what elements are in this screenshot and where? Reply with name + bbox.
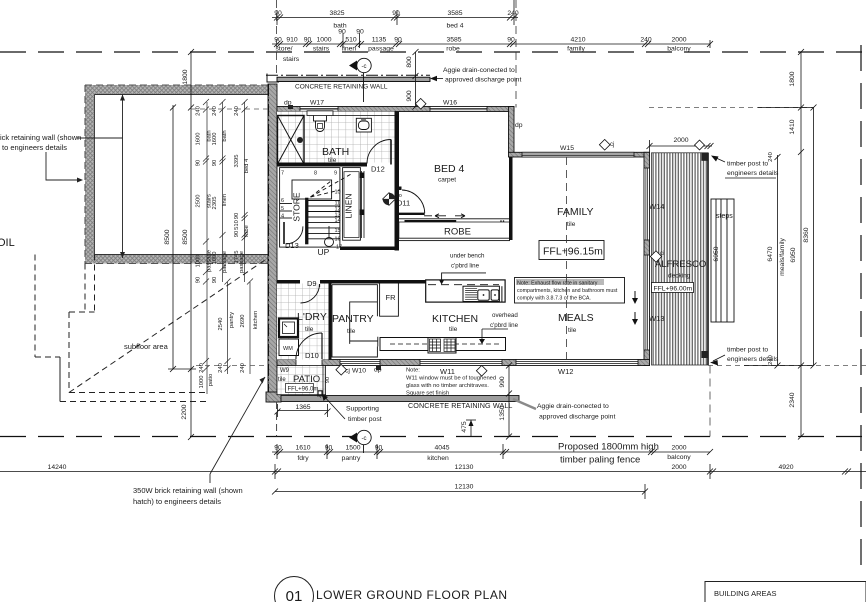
- alfresco labels: [650, 251, 706, 293]
- svg-text:KITCHEN: KITCHEN: [432, 313, 478, 325]
- svg-text:1000: 1000: [199, 376, 205, 389]
- svg-text:FR: FR: [386, 293, 397, 302]
- passage north wall (below linen/stairs): [340, 247, 399, 251]
- svg-text:PANTRY: PANTRY: [332, 313, 374, 325]
- boundary dashed line top: [0, 51, 866, 53]
- svg-text:1600: 1600: [196, 133, 202, 146]
- pantry bench: [332, 285, 378, 357]
- svg-text:W14: W14: [649, 202, 664, 211]
- svg-text:ROBE: ROBE: [444, 227, 471, 238]
- svg-text:90: 90: [325, 377, 331, 383]
- timber post note bottom right: [710, 347, 779, 366]
- svg-text:1610: 1610: [295, 445, 310, 452]
- svg-text:4045: 4045: [434, 445, 449, 452]
- bath/bed4 wall: [395, 112, 400, 251]
- svg-text:7: 7: [281, 171, 284, 177]
- smoke detector symbol: [383, 193, 402, 206]
- svg-text:240: 240: [196, 106, 202, 116]
- W11 note text: [406, 368, 496, 397]
- svg-text:W13: W13: [649, 314, 664, 323]
- svg-text:1410: 1410: [789, 119, 796, 134]
- svg-text:1800: 1800: [182, 69, 189, 84]
- svg-text:FFL+96.00m: FFL+96.00m: [654, 286, 693, 293]
- svg-text:475: 475: [461, 421, 468, 433]
- laundry tub: [279, 319, 298, 338]
- svg-text:overhead: overhead: [492, 312, 518, 319]
- svg-text:90: 90: [338, 29, 346, 36]
- svg-text:compartments, kitchen and bath: compartments, kitchen and bathroom must: [517, 288, 618, 294]
- svg-text:2540: 2540: [218, 318, 224, 331]
- kitchen south bench: [380, 338, 506, 354]
- window W16: [430, 107, 487, 112]
- svg-text:6950: 6950: [790, 247, 797, 262]
- svg-text:store/: store/: [276, 46, 293, 53]
- svg-text:timber post to: timber post to: [727, 347, 768, 354]
- svg-text:1000: 1000: [196, 255, 202, 268]
- svg-text:UP: UP: [318, 247, 330, 257]
- shower: [278, 116, 305, 165]
- svg-text:8500: 8500: [182, 229, 189, 244]
- post bottom: [702, 351, 709, 358]
- svg-text:3585: 3585: [446, 37, 461, 44]
- 800/900 dim: [413, 49, 419, 110]
- svg-text:balcony: balcony: [667, 46, 691, 53]
- right dim lines: [649, 49, 866, 440]
- svg-text:bath: bath: [222, 130, 228, 141]
- svg-text:90: 90: [394, 37, 402, 44]
- svg-text:robe: robe: [244, 225, 250, 237]
- svg-text:engineers details: engineers details: [727, 170, 779, 177]
- svg-text:6950: 6950: [713, 246, 720, 261]
- svg-text:Note: Exhaust flow rate in san: Note: Exhaust flow rate in sanitary: [517, 281, 598, 287]
- timber post note top right: [711, 156, 779, 179]
- svg-text:D10: D10: [305, 351, 319, 360]
- washing machine: [279, 339, 299, 356]
- svg-text:W12: W12: [558, 367, 573, 376]
- svg-text:under bench: under bench: [450, 253, 485, 260]
- svg-text:FAMILY: FAMILY: [557, 206, 594, 218]
- svg-text:family: family: [567, 46, 585, 53]
- door D12: [367, 140, 391, 165]
- svg-text:robe: robe: [446, 46, 460, 53]
- post top: [702, 153, 709, 161]
- svg-text:3585: 3585: [447, 10, 462, 17]
- svg-text:90: 90: [325, 445, 333, 452]
- svg-text:1135: 1135: [372, 37, 387, 44]
- svg-text:fdry: fdry: [297, 455, 309, 462]
- svg-text:90: 90: [507, 37, 515, 44]
- steps (right of alfresco): [711, 199, 734, 322]
- title circle 01: [275, 577, 508, 602]
- svg-text:Aggie drain-conected to: Aggie drain-conected to: [443, 67, 515, 74]
- svg-text:so: so: [396, 193, 402, 199]
- svg-text:10: 10: [335, 190, 341, 196]
- svg-text:subfloor area: subfloor area: [124, 342, 169, 351]
- door D10 opening: [296, 360, 322, 366]
- bath south wall: [277, 163, 367, 167]
- svg-text:LINEN: LINEN: [344, 193, 354, 218]
- svg-text:4920: 4920: [778, 464, 793, 471]
- svg-text:tile: tile: [278, 377, 286, 383]
- svg-text:hatch) to engineers details: hatch) to engineers details: [133, 497, 221, 506]
- leader: brick retaining wall note (left): [46, 95, 125, 259]
- svg-text:90: 90: [392, 10, 400, 17]
- svg-text:Proposed 1800mm high: Proposed 1800mm high: [558, 442, 659, 453]
- svg-text:W15: W15: [560, 145, 574, 152]
- svg-text:90: 90: [356, 29, 364, 36]
- svg-text:90: 90: [196, 160, 202, 166]
- svg-text:tile: tile: [449, 326, 458, 333]
- svg-text:D11: D11: [397, 199, 410, 208]
- door D9 arc: [301, 284, 320, 303]
- svg-text:2000: 2000: [671, 445, 686, 452]
- svg-text:240: 240: [218, 363, 224, 373]
- aggie drain note bottom: [513, 399, 615, 421]
- interior walls: [277, 112, 513, 360]
- bottom dim row A: [272, 444, 713, 459]
- stair numbers: [281, 171, 342, 251]
- window W14: [644, 168, 650, 240]
- top dim row 1: [272, 0, 518, 25]
- building top wall: [277, 107, 514, 112]
- svg-text:c'pbrd line: c'pbrd line: [451, 263, 480, 270]
- svg-text:tile: tile: [328, 157, 337, 164]
- svg-text:1365: 1365: [295, 404, 310, 411]
- svg-text:1000: 1000: [316, 37, 331, 44]
- svg-text:1000: 1000: [212, 252, 218, 265]
- svg-text:8: 8: [314, 171, 317, 177]
- svg-text:c'pbrd line: c'pbrd line: [490, 322, 519, 329]
- svg-text:tile: tile: [305, 326, 314, 333]
- svg-text:90: 90: [274, 445, 282, 452]
- svg-text:CONCRETE RETAINING WALL: CONCRETE RETAINING WALL: [295, 84, 388, 91]
- svg-text:350W brick retaining wall (sho: 350W brick retaining wall (shown: [133, 486, 243, 495]
- svg-text:steps: steps: [716, 213, 733, 220]
- svg-text:BUILDING AREAS: BUILDING AREAS: [714, 589, 777, 598]
- svg-text:comply with 3.8.7.3 of the BC: comply with 3.8.7.3 of the BCA.: [517, 296, 591, 302]
- svg-text:240: 240: [240, 363, 246, 373]
- left dim line 1800/8500/2200: [168, 49, 196, 440]
- svg-text:bed 4: bed 4: [446, 23, 463, 30]
- svg-text:12130: 12130: [455, 464, 474, 471]
- svg-text:D13: D13: [285, 241, 299, 250]
- svg-text:balcony: balcony: [667, 454, 691, 461]
- svg-text:cj: cj: [610, 142, 614, 148]
- bed4 east wall: [509, 107, 515, 153]
- svg-text:passage: passage: [368, 46, 394, 53]
- svg-text:passage: passage: [222, 251, 228, 273]
- svg-text:800: 800: [406, 56, 413, 68]
- svg-text:1500: 1500: [345, 445, 360, 452]
- drain symbol bottom: [349, 430, 371, 453]
- window tags: [284, 100, 574, 377]
- svg-text:6: 6: [281, 198, 284, 204]
- gridline dashes top: [276, 0, 278, 75]
- stairs: [280, 168, 352, 248]
- svg-text:16: 16: [335, 237, 341, 243]
- svg-text:tile: tile: [568, 327, 577, 334]
- svg-text:90: 90: [212, 160, 218, 166]
- family east wall: [644, 152, 650, 365]
- bottom dim row C: [272, 484, 648, 499]
- window W12: [516, 360, 638, 366]
- svg-text:90: 90: [274, 10, 282, 17]
- svg-text:5: 5: [281, 206, 284, 212]
- 475 dim: [466, 420, 476, 437]
- svg-text:90: 90: [234, 231, 240, 237]
- svg-text:-c: -c: [362, 64, 367, 70]
- svg-text:2690: 2690: [240, 315, 246, 328]
- svg-text:Square set finish: Square set finish: [406, 391, 449, 397]
- top concrete retaining wall band: [266, 75, 430, 90]
- svg-text:2000: 2000: [671, 37, 686, 44]
- window W13 / door: [644, 255, 650, 350]
- svg-text:-c: -c: [362, 436, 367, 442]
- svg-text:carpet: carpet: [438, 177, 456, 184]
- svg-text:14: 14: [335, 218, 341, 224]
- svg-text:pantry: pantry: [342, 455, 361, 462]
- svg-text:stairs: stairs: [283, 56, 300, 63]
- svg-text:2200: 2200: [181, 404, 188, 419]
- svg-text:Aggie drain-conected to: Aggie drain-conected to: [537, 403, 609, 410]
- svg-text:2500: 2500: [196, 195, 202, 208]
- svg-text:ick retaining wall (shown: ick retaining wall (shown: [0, 133, 81, 142]
- svg-text:01: 01: [286, 588, 303, 602]
- family west wall: [509, 157, 513, 240]
- left brick retaining wall (hatched rectangle): [85, 85, 277, 264]
- svg-text:glass with no timber architrav: glass with no timber architraves.: [406, 383, 489, 389]
- svg-text:2305: 2305: [212, 197, 218, 210]
- svg-text:pantry: pantry: [229, 312, 235, 328]
- bath tile grid: [277, 112, 395, 163]
- svg-text:6470: 6470: [767, 246, 774, 261]
- svg-text:1800: 1800: [789, 71, 796, 86]
- svg-text:W16: W16: [443, 100, 457, 107]
- svg-text:510: 510: [345, 37, 357, 44]
- svg-text:Note:: Note:: [406, 368, 420, 374]
- svg-text:decking: decking: [668, 273, 691, 280]
- door D13: [284, 222, 303, 244]
- svg-text:linen: linen: [222, 194, 228, 206]
- svg-text:WM: WM: [283, 346, 293, 352]
- svg-text:patio: patio: [208, 374, 214, 387]
- svg-text:90: 90: [274, 37, 282, 44]
- svg-text:2000: 2000: [671, 464, 686, 471]
- svg-text:passage: passage: [239, 251, 245, 273]
- svg-text:CONCRETE RETAINING WALL: CONCRETE RETAINING WALL: [408, 401, 513, 410]
- svg-text:BED 4: BED 4: [434, 163, 465, 175]
- svg-text:240: 240: [768, 152, 774, 162]
- svg-text:LOWER GROUND FLOOR PLAN: LOWER GROUND FLOOR PLAN: [316, 588, 508, 602]
- window W17: [300, 107, 338, 112]
- svg-text:90: 90: [375, 445, 383, 452]
- svg-text:9: 9: [334, 171, 337, 177]
- boundary dashed line right: [860, 45, 862, 574]
- svg-text:tile: tile: [567, 221, 576, 228]
- ldry tile grid: [277, 284, 329, 360]
- leader: 350W brick retaining wall note: [210, 377, 265, 474]
- door D10 arc: [296, 333, 322, 359]
- svg-text:12130: 12130: [455, 484, 474, 491]
- svg-text:kitchen: kitchen: [427, 455, 449, 462]
- cooktop: [428, 338, 456, 354]
- 1365 dim: [275, 404, 331, 417]
- fridge space: [380, 281, 399, 316]
- svg-text:240: 240: [212, 106, 218, 116]
- door D11: [395, 187, 425, 214]
- linen closet: [343, 168, 365, 241]
- svg-text:240: 240: [507, 10, 519, 17]
- svg-text:15: 15: [335, 228, 341, 234]
- meals down arrows: [632, 291, 638, 325]
- svg-text:stairs: stairs: [313, 46, 330, 53]
- window W10: [340, 360, 380, 366]
- rooms north wall with D9 opening: [277, 280, 300, 284]
- svg-text:engineers details: engineers details: [727, 356, 779, 363]
- svg-text:meals/family: meals/family: [779, 238, 786, 276]
- svg-text:W17: W17: [310, 100, 324, 107]
- svg-text:990: 990: [499, 376, 506, 388]
- svg-text:timber paling fence: timber paling fence: [560, 455, 640, 466]
- building left wall (concrete retaining): [267, 74, 279, 403]
- small squares dp markers: [288, 105, 293, 109]
- kitchen island bench: [426, 280, 505, 302]
- svg-text:ALFRESCO: ALFRESCO: [655, 259, 706, 270]
- drain symbol top: [349, 58, 371, 102]
- building areas box: [705, 582, 866, 602]
- south wall: [277, 360, 650, 366]
- svg-text:timber post: timber post: [348, 416, 382, 423]
- patio tile grid: [277, 366, 326, 395]
- svg-text:2000: 2000: [673, 137, 688, 144]
- boundary dashed line bottom: [0, 436, 866, 438]
- family gridline dashed: [566, 157, 568, 359]
- svg-text:timber post to: timber post to: [727, 161, 768, 168]
- svg-text:W11: W11: [440, 367, 455, 376]
- svg-text:W10: W10: [352, 368, 366, 375]
- svg-text:Supporting: Supporting: [346, 406, 379, 413]
- subfloor diagonal: [69, 258, 268, 393]
- subfloor dashed outline: [35, 255, 268, 402]
- note box (exhaust): [515, 278, 625, 304]
- svg-text:FFL+96.15m: FFL+96.15m: [543, 246, 603, 258]
- svg-text:910: 910: [286, 37, 298, 44]
- svg-text:3825: 3825: [329, 10, 344, 17]
- window W11: [420, 360, 502, 366]
- svg-text:240: 240: [234, 106, 240, 116]
- svg-text:STORE: STORE: [292, 192, 302, 221]
- svg-text:8360: 8360: [803, 227, 810, 242]
- svg-text:1350: 1350: [499, 405, 506, 420]
- svg-text:240: 240: [199, 363, 205, 373]
- FFL+96.15m box: [539, 241, 604, 260]
- top dim row 2: [272, 33, 713, 48]
- svg-text:approved discharge point: approved discharge point: [445, 77, 521, 84]
- bottom dim row B: [0, 464, 866, 479]
- svg-text:17: 17: [336, 245, 342, 251]
- svg-text:linen: linen: [342, 46, 357, 53]
- ldry/pantry wall: [329, 284, 332, 360]
- aggie drain note top: [430, 67, 521, 84]
- svg-text:4: 4: [281, 214, 284, 220]
- svg-text:MEALS: MEALS: [558, 312, 594, 324]
- svg-text:W11 window must be of toughene: W11 window must be of toughened: [406, 376, 496, 382]
- family north wall: [509, 152, 650, 157]
- svg-text:FFL+96.0m: FFL+96.0m: [288, 387, 319, 393]
- south concrete retaining wall band: [266, 392, 519, 410]
- svg-text:to engineers details: to engineers details: [2, 143, 67, 152]
- svg-text:L'DRY: L'DRY: [297, 311, 327, 323]
- svg-text:510: 510: [234, 220, 240, 230]
- 2000 dim above alfresco: [647, 140, 714, 152]
- 990/1350 dim: [506, 363, 512, 440]
- left small dim columns: [191, 99, 268, 394]
- toilet: [314, 114, 327, 132]
- svg-text:90: 90: [234, 213, 240, 219]
- svg-text:W9: W9: [280, 368, 290, 374]
- robe: [397, 214, 510, 241]
- svg-text:tile: tile: [347, 328, 356, 335]
- svg-text:4210: 4210: [570, 37, 585, 44]
- svg-text:1600: 1600: [212, 133, 218, 146]
- svg-text:D9: D9: [307, 279, 317, 288]
- svg-text:90: 90: [196, 277, 202, 283]
- svg-text:OIL: OIL: [0, 237, 15, 249]
- svg-text:D12: D12: [371, 165, 385, 174]
- svg-text:90: 90: [212, 277, 218, 283]
- window W15: [522, 152, 634, 157]
- svg-text:900: 900: [406, 90, 413, 102]
- svg-text:14240: 14240: [48, 464, 67, 471]
- svg-text:ci: ci: [660, 251, 664, 257]
- svg-text:8500: 8500: [164, 229, 171, 244]
- svg-text:bed 4: bed 4: [244, 158, 250, 173]
- svg-text:3395: 3395: [234, 155, 240, 168]
- basin: [356, 118, 371, 132]
- svg-text:90: 90: [304, 37, 312, 44]
- svg-text:240: 240: [640, 37, 652, 44]
- svg-text:2340: 2340: [789, 392, 796, 407]
- alfresco decking: [652, 153, 709, 365]
- svg-text:kitchen: kitchen: [253, 311, 259, 329]
- svg-text:approved discharge point: approved discharge point: [539, 414, 615, 421]
